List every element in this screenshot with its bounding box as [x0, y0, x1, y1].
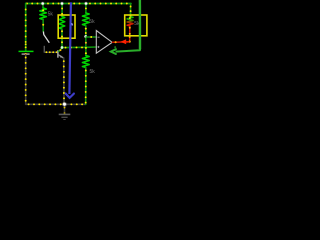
annotation red arrow — [120, 39, 126, 44]
node F junction — [85, 2, 88, 5]
wire collector node — [62, 46, 96, 49]
resistor R5 — [130, 4, 132, 17]
node A junction — [61, 46, 64, 49]
battery V1 — [19, 50, 34, 52]
wire bottom rail — [26, 103, 86, 105]
label R3 value — [89, 19, 95, 25]
wire inverting input — [86, 36, 96, 38]
switch S1 — [42, 32, 44, 35]
node E junction — [61, 2, 64, 5]
node B junction — [84, 35, 87, 38]
label R4 value — [90, 69, 96, 75]
annotation green arrow — [139, 0, 142, 49]
selection box 2 — [125, 15, 147, 36]
wire top rail — [26, 3, 131, 5]
resistor R1 — [42, 4, 44, 9]
selection box 1 — [58, 15, 75, 38]
ground — [59, 113, 71, 115]
wire base — [44, 51, 57, 53]
svg-text:5k: 5k — [48, 11, 54, 17]
annotation blue arrow — [69, 2, 71, 94]
label R5 value — [134, 21, 140, 27]
transistor Q1 — [57, 50, 59, 58]
svg-text:5k: 5k — [90, 69, 96, 75]
wire ground tap — [64, 104, 66, 114]
resistor R3 — [85, 4, 87, 14]
wire emitter — [63, 58, 65, 104]
wire divider mid — [85, 37, 87, 56]
svg-text:5k: 5k — [89, 19, 95, 25]
label R1 value — [48, 11, 54, 17]
wire left rail negative — [25, 55, 27, 105]
wire left rail positive — [25, 4, 27, 52]
op-amp U1 — [96, 31, 112, 54]
resistor R4 — [82, 56, 89, 68]
wire output — [112, 36, 129, 43]
node D junction — [41, 2, 44, 5]
node C junction — [63, 103, 66, 106]
resistor R2 — [61, 4, 63, 17]
